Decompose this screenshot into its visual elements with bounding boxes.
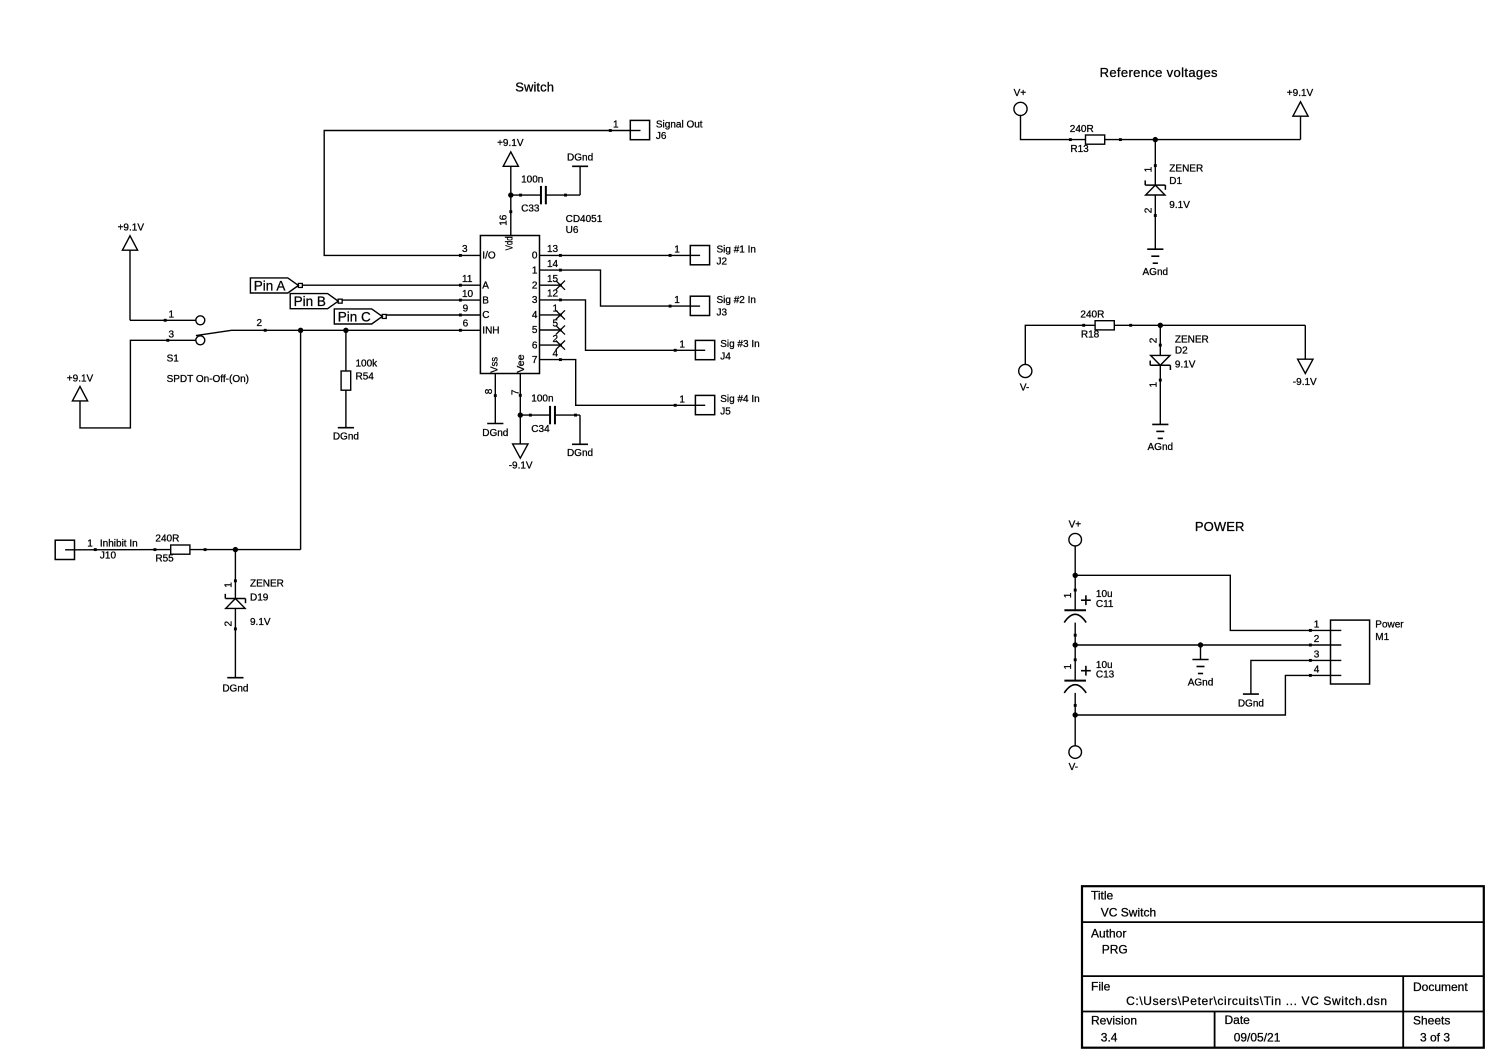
svg-text:2: 2 (257, 318, 263, 329)
svg-text:DGnd: DGnd (1238, 699, 1264, 710)
svg-text:J2: J2 (717, 257, 728, 268)
svg-text:D2: D2 (1175, 346, 1188, 357)
svg-text:1: 1 (613, 119, 619, 130)
svg-text:DGnd: DGnd (567, 448, 593, 459)
svg-text:C34: C34 (531, 424, 550, 435)
svg-text:R54: R54 (356, 372, 375, 383)
svg-text:V-: V- (1020, 383, 1029, 394)
svg-text:A: A (482, 280, 489, 291)
svg-text:4: 4 (1314, 665, 1320, 676)
svg-text:J4: J4 (720, 352, 731, 363)
svg-text:240R: 240R (1070, 124, 1094, 135)
svg-text:Sig #3 In: Sig #3 In (720, 339, 759, 350)
svg-text:-9.1V: -9.1V (1293, 377, 1317, 388)
svg-text:Vss: Vss (490, 357, 501, 373)
svg-text:3: 3 (462, 244, 468, 255)
svg-text:Pin A: Pin A (254, 278, 286, 293)
svg-text:POWER: POWER (1195, 519, 1245, 534)
svg-text:Power: Power (1375, 620, 1404, 631)
svg-text:C33: C33 (521, 204, 540, 215)
svg-text:8: 8 (484, 388, 495, 394)
svg-text:240R: 240R (155, 534, 179, 545)
svg-text:Document: Document (1413, 980, 1468, 994)
svg-text:1: 1 (169, 310, 175, 321)
svg-text:9.1V: 9.1V (250, 617, 271, 628)
svg-text:AGnd: AGnd (1148, 442, 1174, 453)
svg-text:J5: J5 (720, 407, 731, 418)
svg-text:+9.1V: +9.1V (497, 138, 524, 149)
svg-text:09/05/21: 09/05/21 (1234, 1031, 1281, 1045)
svg-text:Sig #1 In: Sig #1 In (717, 244, 756, 255)
svg-text:4: 4 (553, 348, 559, 359)
svg-text:9.1V: 9.1V (1175, 360, 1196, 371)
svg-text:+9.1V: +9.1V (118, 223, 145, 234)
svg-text:J3: J3 (717, 307, 728, 318)
svg-text:6: 6 (463, 319, 469, 330)
svg-text:Pin C: Pin C (338, 309, 371, 324)
svg-text:16: 16 (499, 214, 510, 226)
svg-text:AGnd: AGnd (1143, 267, 1169, 278)
svg-text:R13: R13 (1070, 144, 1089, 155)
svg-text:9.1V: 9.1V (1169, 200, 1190, 211)
svg-text:DGnd: DGnd (222, 684, 248, 695)
svg-text:15: 15 (547, 274, 559, 285)
svg-text:9: 9 (463, 304, 469, 315)
svg-text:2: 2 (1314, 634, 1320, 645)
svg-text:3 of 3: 3 of 3 (1420, 1030, 1450, 1044)
svg-text:File: File (1091, 980, 1111, 994)
svg-text:100n: 100n (521, 175, 543, 186)
svg-text:Sheets: Sheets (1413, 1013, 1450, 1027)
svg-text:1: 1 (679, 394, 685, 405)
svg-text:V+: V+ (1069, 520, 1082, 531)
svg-text:CD4051: CD4051 (566, 214, 603, 225)
svg-text:7: 7 (511, 389, 522, 395)
svg-text:2: 2 (1144, 207, 1155, 213)
svg-text:D19: D19 (250, 593, 269, 604)
svg-text:3: 3 (532, 295, 538, 306)
svg-text:10: 10 (462, 289, 474, 300)
svg-text:SPDT On-Off-(On): SPDT On-Off-(On) (167, 374, 249, 385)
svg-text:Reference voltages: Reference voltages (1100, 65, 1218, 80)
svg-text:Author: Author (1091, 926, 1126, 940)
svg-text:2: 2 (532, 280, 538, 291)
svg-text:C11: C11 (1096, 599, 1114, 610)
svg-text:Revision: Revision (1091, 1014, 1137, 1028)
svg-text:+9.1V: +9.1V (67, 374, 94, 385)
svg-text:AGnd: AGnd (1188, 677, 1214, 688)
svg-text:3.4: 3.4 (1101, 1031, 1118, 1045)
svg-text:Sig #2 In: Sig #2 In (717, 295, 756, 306)
svg-text:Vdd: Vdd (505, 236, 516, 250)
svg-text:1: 1 (1063, 664, 1074, 670)
svg-text:1: 1 (1149, 382, 1160, 388)
svg-text:1: 1 (1314, 620, 1320, 631)
svg-text:2: 2 (1149, 337, 1160, 343)
svg-text:1: 1 (1063, 592, 1074, 598)
svg-text:DGnd: DGnd (567, 152, 593, 163)
svg-text:1: 1 (674, 295, 680, 306)
svg-text:PRG: PRG (1102, 943, 1128, 957)
svg-text:J10: J10 (100, 550, 117, 561)
svg-text:C:\Users\Peter\circuits\Tin ..: C:\Users\Peter\circuits\Tin ... VC Switc… (1126, 994, 1388, 1008)
svg-text:240R: 240R (1080, 310, 1104, 321)
svg-text:D1: D1 (1169, 176, 1182, 187)
svg-text:Signal Out: Signal Out (656, 120, 703, 131)
svg-text:INH: INH (482, 326, 499, 337)
svg-text:ZENER: ZENER (250, 579, 284, 590)
svg-text:7: 7 (532, 355, 538, 366)
svg-text:3: 3 (1314, 650, 1320, 661)
svg-text:VC Switch: VC Switch (1101, 906, 1156, 920)
svg-text:C13: C13 (1096, 670, 1115, 681)
svg-text:1: 1 (532, 265, 538, 276)
svg-text:ZENER: ZENER (1169, 164, 1203, 175)
svg-text:Inhibit In: Inhibit In (100, 539, 138, 550)
svg-text:+9.1V: +9.1V (1287, 88, 1314, 99)
svg-text:5: 5 (532, 325, 538, 336)
svg-text:S1: S1 (167, 354, 180, 365)
svg-text:V-: V- (1069, 762, 1078, 773)
svg-text:1: 1 (224, 582, 235, 588)
svg-text:Vee: Vee (516, 354, 527, 373)
svg-text:1: 1 (1144, 166, 1155, 172)
svg-text:M1: M1 (1375, 632, 1389, 643)
svg-text:2: 2 (224, 621, 235, 627)
svg-text:Title: Title (1091, 889, 1114, 903)
svg-text:Switch: Switch (515, 79, 554, 94)
svg-text:100k: 100k (356, 359, 379, 370)
svg-text:R55: R55 (155, 553, 174, 564)
svg-text:DGnd: DGnd (333, 432, 359, 443)
svg-text:4: 4 (532, 310, 538, 321)
svg-text:Date: Date (1225, 1013, 1251, 1027)
svg-text:11: 11 (462, 274, 473, 285)
svg-text:3: 3 (169, 330, 175, 341)
svg-text:1: 1 (679, 339, 685, 350)
svg-text:13: 13 (547, 244, 559, 255)
svg-text:DGnd: DGnd (482, 428, 508, 439)
svg-text:B: B (482, 295, 489, 306)
svg-text:12: 12 (547, 289, 559, 300)
svg-text:Pin B: Pin B (294, 294, 326, 309)
svg-text:1: 1 (87, 539, 93, 550)
svg-text:ZENER: ZENER (1175, 335, 1209, 346)
svg-text:J6: J6 (656, 131, 667, 142)
svg-text:I/O: I/O (482, 251, 496, 262)
svg-text:6: 6 (532, 340, 538, 351)
svg-text:Sig #4 In: Sig #4 In (720, 394, 759, 405)
svg-text:14: 14 (547, 259, 559, 270)
svg-text:0: 0 (532, 251, 538, 262)
svg-text:100n: 100n (531, 394, 553, 405)
svg-text:R18: R18 (1081, 330, 1100, 341)
svg-text:V+: V+ (1014, 88, 1027, 99)
svg-text:-9.1V: -9.1V (509, 461, 533, 472)
svg-text:1: 1 (674, 245, 680, 256)
svg-text:C: C (482, 310, 489, 321)
svg-text:U6: U6 (566, 225, 579, 236)
